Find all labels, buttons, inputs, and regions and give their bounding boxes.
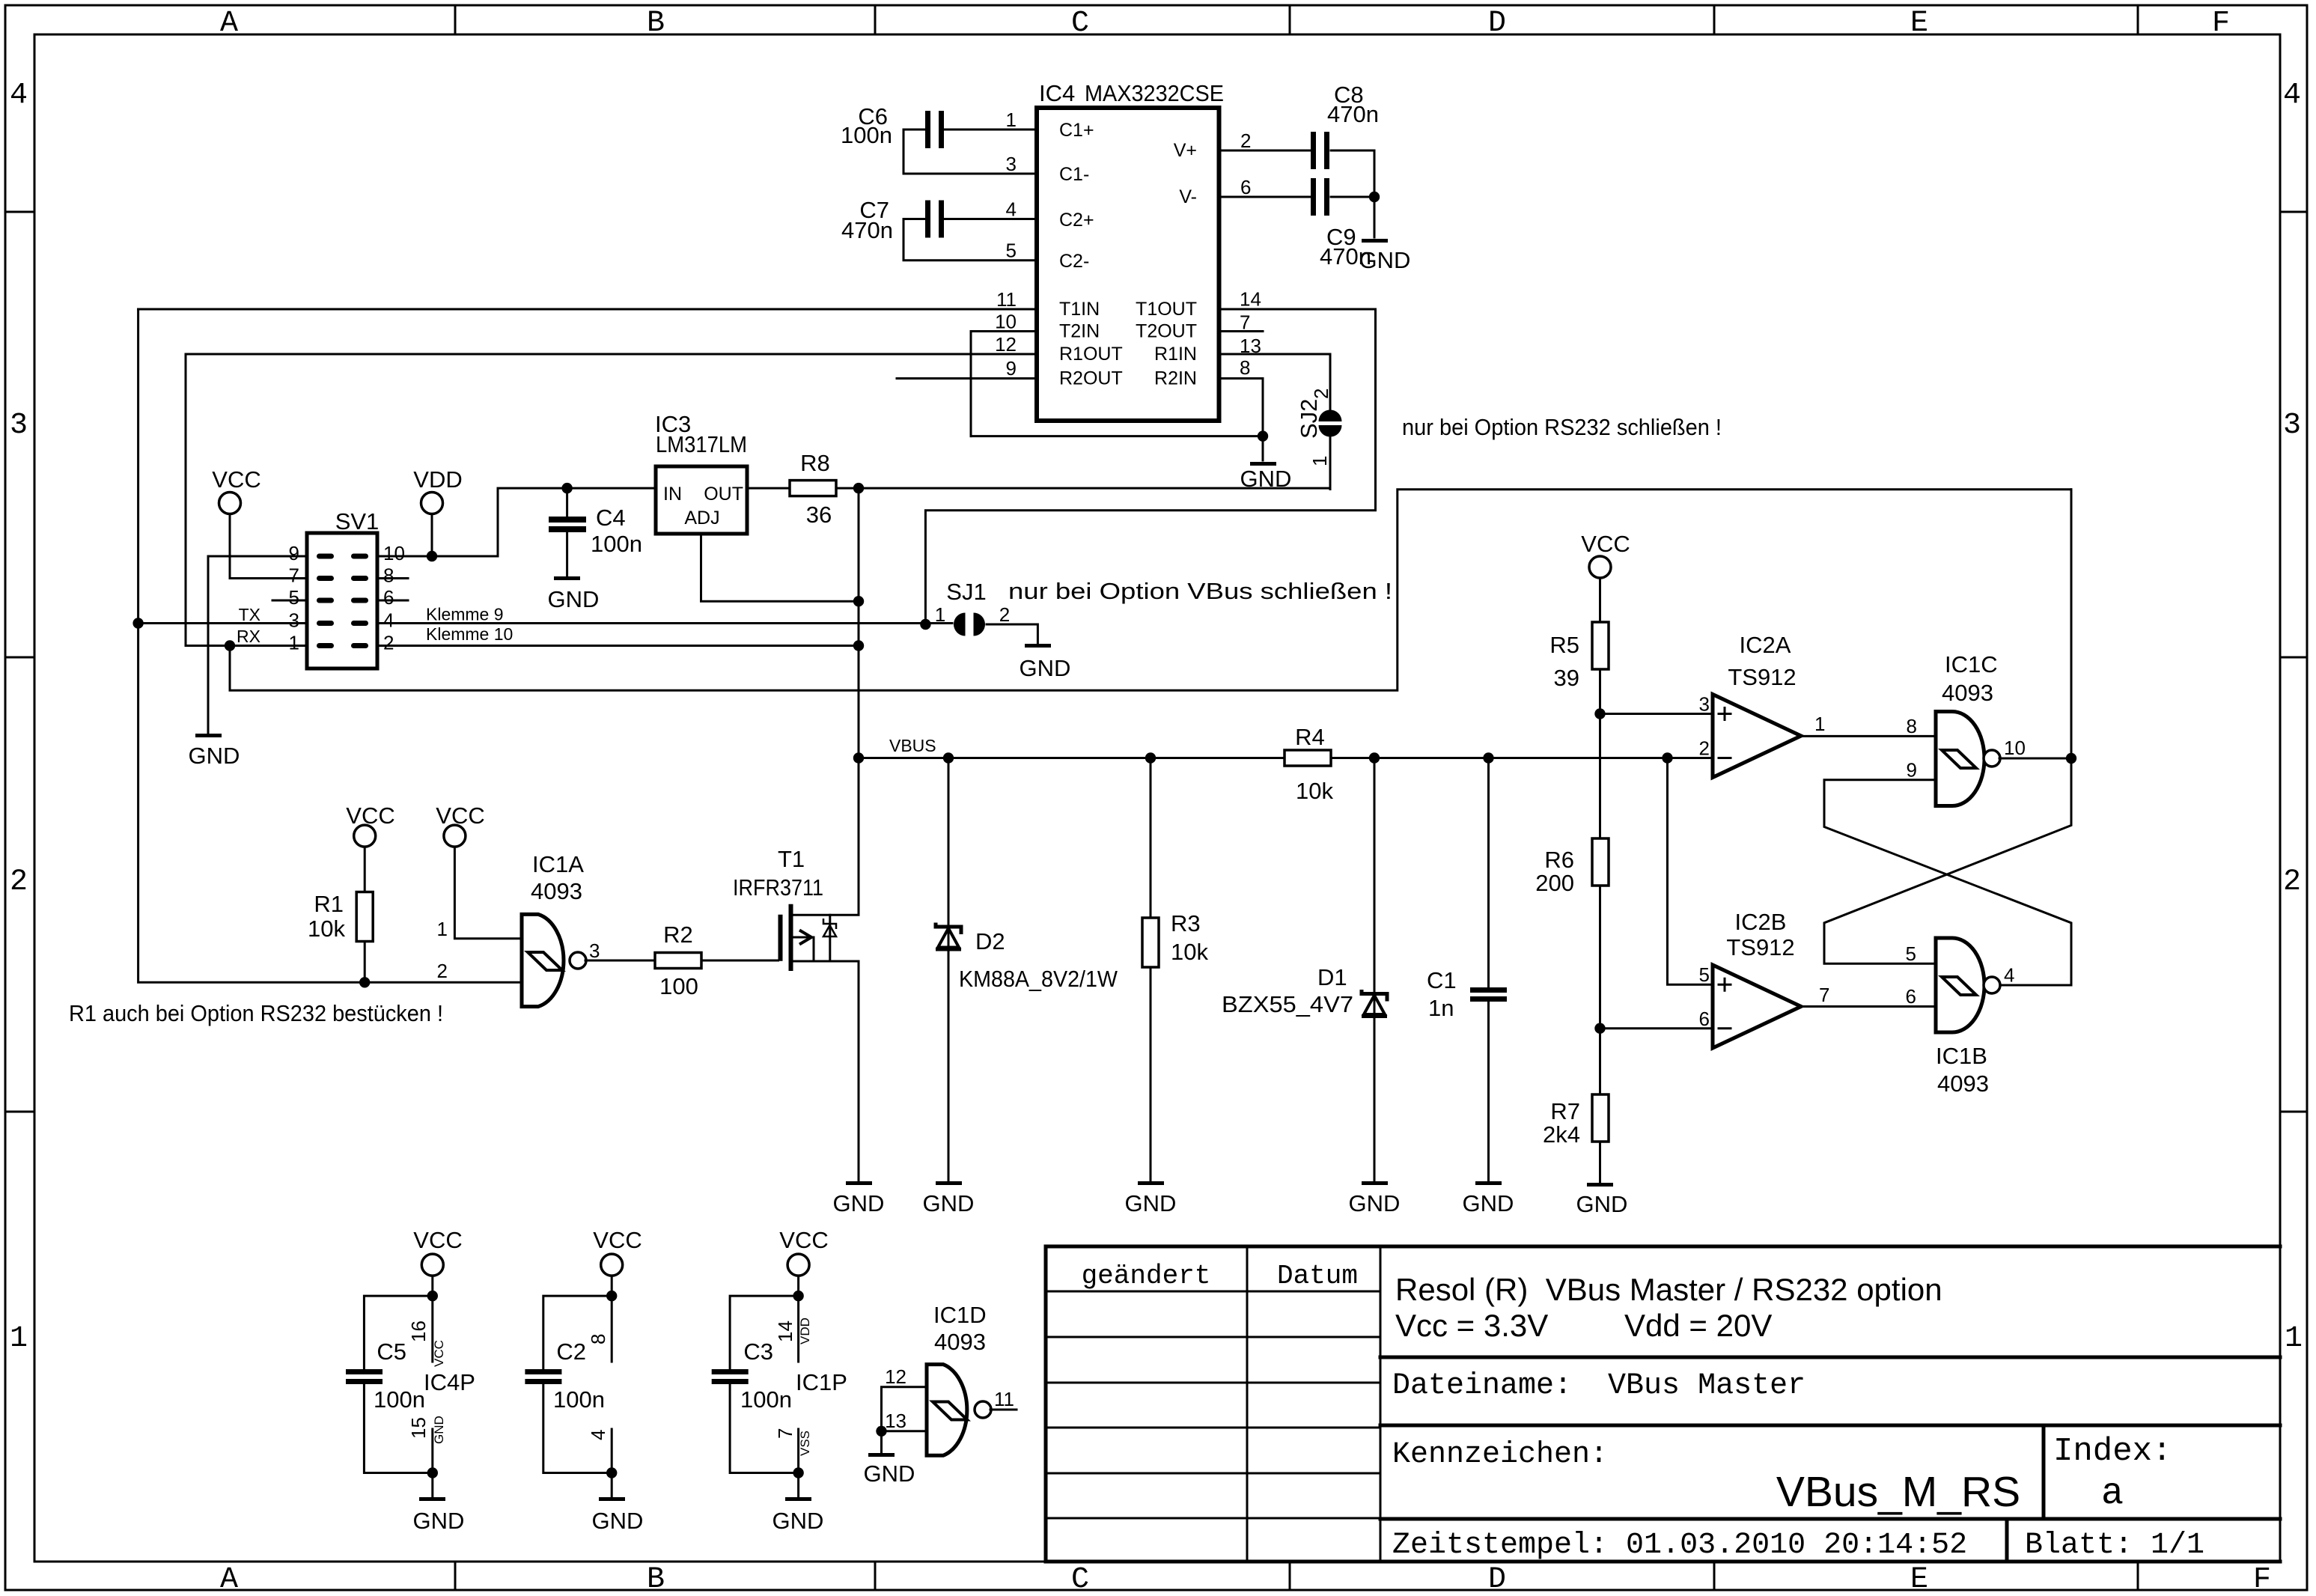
channel bar bbox=[789, 904, 793, 971]
junction R8/VBUS riser bbox=[853, 483, 864, 493]
wire R2 to T1 gate bbox=[701, 960, 778, 962]
ground GND (C1) bbox=[1463, 1181, 1514, 1216]
svg-text:IC2A: IC2A bbox=[1740, 632, 1791, 658]
svg-text:VBus_M_RS: VBus_M_RS bbox=[1776, 1468, 2020, 1516]
svg-text:39: 39 bbox=[1554, 665, 1579, 691]
svg-text:C2-: C2- bbox=[1059, 251, 1089, 272]
wire IC3 ADJ bbox=[701, 534, 859, 601]
svg-text:10k: 10k bbox=[1296, 778, 1333, 804]
junction R6/R7 (IC2B -) bbox=[1594, 1023, 1605, 1034]
svg-text:4093: 4093 bbox=[934, 1329, 986, 1355]
svg-text:1: 1 bbox=[1814, 713, 1825, 735]
junction R5/R6 (IC2A +) bbox=[1594, 708, 1605, 719]
svg-text:Klemme 10: Klemme 10 bbox=[426, 624, 513, 644]
svg-text:2: 2 bbox=[1699, 737, 1710, 760]
wire VBUS to IC2B + input bbox=[1668, 758, 1713, 985]
wire IC1C out to IC1B pin 5 (cross) bbox=[1824, 758, 2071, 963]
svg-text:GND: GND bbox=[1359, 247, 1411, 273]
wire SV1 pin8 stub bbox=[377, 577, 408, 579]
power VCC (C2) bbox=[593, 1227, 642, 1296]
svg-text:100n: 100n bbox=[740, 1386, 792, 1413]
svg-text:VCC: VCC bbox=[432, 1340, 446, 1367]
wire IC2A output to IC1C pin 8 bbox=[1801, 735, 1936, 737]
svg-text:R1OUT: R1OUT bbox=[1059, 344, 1123, 365]
svg-text:GND: GND bbox=[592, 1508, 644, 1534]
svg-text:V-: V- bbox=[1179, 186, 1197, 207]
svg-text:D1: D1 bbox=[1317, 964, 1347, 990]
wire R2IN (pin 8) to ground bbox=[971, 379, 1263, 461]
svg-text:VDD: VDD bbox=[413, 466, 462, 493]
junction ADJ bbox=[853, 596, 864, 606]
svg-text:Vdd = 20V: Vdd = 20V bbox=[1624, 1308, 1772, 1343]
op-amp IC2B TS912 bbox=[1699, 909, 1830, 1048]
ground GND (C4) bbox=[548, 576, 600, 612]
svg-text:R3: R3 bbox=[1171, 910, 1201, 936]
resistor R7 bbox=[1543, 1094, 1609, 1183]
svg-text:R2: R2 bbox=[663, 922, 693, 948]
svg-text:T2IN: T2IN bbox=[1059, 321, 1100, 342]
power VCC (R1) bbox=[346, 802, 394, 892]
capacitor C8 bbox=[1219, 82, 1379, 169]
svg-text:7: 7 bbox=[1819, 984, 1829, 1006]
svg-text:4: 4 bbox=[587, 1430, 609, 1440]
svg-text:SV1: SV1 bbox=[335, 508, 380, 534]
svg-text:R8: R8 bbox=[800, 450, 830, 476]
wire SV1 pin9 to ground bbox=[208, 556, 307, 734]
svg-text:4: 4 bbox=[10, 79, 28, 112]
svg-text:GND: GND bbox=[1349, 1190, 1401, 1216]
svg-text:LM317LM: LM317LM bbox=[656, 431, 747, 457]
junction RX bbox=[225, 640, 235, 651]
svg-text:2: 2 bbox=[1240, 130, 1251, 152]
svg-text:IC2B: IC2B bbox=[1735, 909, 1787, 935]
wire to IC2A + input bbox=[1600, 713, 1713, 715]
svg-text:10: 10 bbox=[995, 311, 1017, 333]
svg-text:F: F bbox=[2212, 7, 2230, 40]
ground GND (R2IN) bbox=[1240, 462, 1292, 492]
svg-text:nur bei Option RS232 schließen: nur bei Option RS232 schließen ! bbox=[1402, 414, 1722, 440]
wire SV1 pin5 stub bbox=[272, 600, 307, 602]
svg-text:2k4: 2k4 bbox=[1543, 1121, 1580, 1148]
capacitor C6 bbox=[841, 103, 1037, 174]
svg-text:100n: 100n bbox=[374, 1386, 425, 1413]
svg-text:GND: GND bbox=[1576, 1191, 1628, 1217]
ground GND (D1) bbox=[1349, 1181, 1401, 1216]
wire T2OUT stub (pin 7) bbox=[1219, 330, 1264, 332]
svg-text:R6: R6 bbox=[1544, 847, 1574, 873]
svg-text:1: 1 bbox=[289, 632, 299, 654]
svg-text:3: 3 bbox=[589, 939, 600, 962]
junction C4 bbox=[561, 483, 572, 493]
svg-text:8: 8 bbox=[1907, 715, 1917, 737]
ground GND (R3) bbox=[1125, 1181, 1177, 1216]
wire T1IN bus to IC1A pin 2 bbox=[138, 309, 522, 982]
power VCC (IC1A pin1) bbox=[436, 802, 522, 939]
resistor R2 bbox=[655, 922, 701, 999]
svg-text:6: 6 bbox=[1699, 1008, 1710, 1030]
gate wire bbox=[701, 960, 778, 962]
svg-text:RX: RX bbox=[237, 627, 260, 646]
svg-text:T1IN: T1IN bbox=[1059, 299, 1100, 320]
svg-text:6: 6 bbox=[1240, 176, 1251, 198]
junction VDD/SV1 pin10 bbox=[427, 551, 437, 561]
svg-text:IC4P: IC4P bbox=[424, 1369, 475, 1395]
solder jumper SJ2 bbox=[1296, 389, 1342, 490]
svg-text:4093: 4093 bbox=[531, 878, 582, 904]
svg-text:C: C bbox=[1071, 7, 1089, 40]
svg-text:A: A bbox=[220, 1563, 238, 1596]
svg-text:GND: GND bbox=[1020, 655, 1071, 681]
voltage regulator IC3 LM317LM bbox=[655, 411, 747, 534]
body diode bbox=[829, 915, 831, 961]
svg-text:GND: GND bbox=[772, 1508, 824, 1534]
svg-text:6: 6 bbox=[383, 586, 394, 609]
svg-text:MAX3232CSE: MAX3232CSE bbox=[1085, 80, 1224, 106]
svg-text:8: 8 bbox=[1240, 356, 1250, 379]
wire IC2B output to IC1B pin 6 bbox=[1801, 1005, 1936, 1008]
wire TX / Klemme 9 bbox=[138, 622, 952, 624]
svg-text:R5: R5 bbox=[1549, 632, 1579, 658]
power VCC (R5) bbox=[1581, 531, 1630, 622]
svg-text:6: 6 bbox=[1906, 985, 1916, 1008]
wire IC3 OUT to R8 bbox=[747, 487, 790, 490]
junction Klemme10/VBUS riser bbox=[853, 640, 864, 651]
transistor T1 IRFR3711 bbox=[701, 758, 859, 1182]
svg-text:D: D bbox=[1488, 7, 1506, 40]
diode D1 BZX55_4V7 bbox=[1222, 758, 1387, 1182]
connector SV1 bbox=[237, 508, 513, 668]
svg-text:VSS: VSS bbox=[798, 1431, 812, 1456]
junction C8/C9 bbox=[1369, 192, 1380, 202]
svg-text:4: 4 bbox=[2283, 79, 2301, 112]
svg-text:F: F bbox=[2253, 1563, 2271, 1596]
svg-text:A: A bbox=[220, 7, 238, 40]
svg-text:4: 4 bbox=[2004, 964, 2014, 987]
svg-text:8: 8 bbox=[587, 1334, 609, 1344]
svg-text:GND: GND bbox=[548, 586, 600, 612]
svg-text:Dateiname: VBus Master: Dateiname: VBus Master bbox=[1392, 1369, 1805, 1403]
gate bar bbox=[778, 915, 783, 961]
wire T2IN (pin 10) bbox=[971, 332, 1037, 436]
ground GND (R7) bbox=[1576, 1183, 1628, 1217]
svg-text:9: 9 bbox=[1907, 759, 1917, 782]
svg-text:1: 1 bbox=[1308, 456, 1331, 466]
power VCC (IC4P) bbox=[413, 1227, 462, 1296]
substrate arrow bbox=[793, 937, 814, 961]
svg-text:T2OUT: T2OUT bbox=[1136, 321, 1197, 342]
NAND gate IC1D 4093 bbox=[876, 1302, 1017, 1455]
svg-text:3: 3 bbox=[1699, 693, 1710, 716]
svg-text:GND: GND bbox=[1125, 1190, 1177, 1216]
svg-text:C5: C5 bbox=[377, 1338, 406, 1365]
wire R1OUT (pin 12) bbox=[186, 353, 1037, 356]
svg-text:12: 12 bbox=[885, 1365, 906, 1388]
svg-text:Zeitstempel: 01.03.2010 20:14:: Zeitstempel: 01.03.2010 20:14:52 bbox=[1392, 1529, 1967, 1562]
svg-text:R1IN: R1IN bbox=[1154, 344, 1197, 365]
ground GND (T1) bbox=[833, 1181, 885, 1216]
svg-text:Resol (R) VBus Master / RS232: Resol (R) VBus Master / RS232 option bbox=[1395, 1272, 1942, 1307]
resistor R6 bbox=[1535, 838, 1609, 1094]
svg-text:C2+: C2+ bbox=[1059, 210, 1094, 231]
svg-text:IN: IN bbox=[663, 484, 682, 505]
svg-text:11: 11 bbox=[996, 288, 1017, 311]
resistor R3 bbox=[1142, 758, 1208, 1182]
wire IC1A output to R2 bbox=[585, 960, 655, 962]
svg-text:470n: 470n bbox=[1327, 101, 1379, 127]
svg-text:GND: GND bbox=[923, 1190, 975, 1216]
svg-text:GND: GND bbox=[432, 1416, 446, 1444]
svg-text:B: B bbox=[647, 7, 665, 40]
source wire bbox=[793, 961, 859, 1181]
op-amp IC4 MAX3232CSE box bbox=[1037, 80, 1224, 421]
svg-text:C1-: C1- bbox=[1059, 164, 1089, 185]
svg-text:T1OUT: T1OUT bbox=[1136, 299, 1197, 320]
svg-text:GND: GND bbox=[189, 743, 240, 769]
svg-text:VCC: VCC bbox=[779, 1227, 828, 1253]
svg-text:100n: 100n bbox=[841, 122, 892, 148]
solder jumper SJ1 bbox=[935, 579, 1038, 644]
svg-text:VBUS: VBUS bbox=[889, 736, 936, 755]
capacitor C1 bbox=[1427, 758, 1507, 1182]
wire R1IN (pin 13) to SJ2 bbox=[1219, 354, 1331, 410]
svg-text:BZX55_4V7: BZX55_4V7 bbox=[1222, 991, 1353, 1017]
svg-text:T1: T1 bbox=[778, 846, 805, 872]
capacitor C5 / power symbol IC4P bbox=[346, 1291, 475, 1497]
svg-text:9: 9 bbox=[1006, 357, 1017, 380]
op-amp IC2A TS912 bbox=[1699, 632, 1826, 778]
svg-text:R2IN: R2IN bbox=[1154, 368, 1197, 389]
svg-text:9: 9 bbox=[289, 542, 299, 564]
svg-text:C1: C1 bbox=[1427, 967, 1457, 993]
svg-text:TX: TX bbox=[239, 605, 260, 624]
capacitor C9 bbox=[1219, 178, 1375, 269]
svg-text:R7: R7 bbox=[1550, 1098, 1580, 1124]
svg-text:E: E bbox=[1910, 7, 1928, 40]
svg-text:ADJ: ADJ bbox=[684, 508, 719, 529]
capacitor C7 bbox=[841, 197, 1037, 261]
NAND gate IC1C 4093 bbox=[1907, 651, 2026, 806]
svg-text:2: 2 bbox=[383, 632, 394, 654]
svg-text:10: 10 bbox=[2004, 737, 2026, 759]
power VCC (SV1) bbox=[212, 466, 307, 579]
svg-text:GND: GND bbox=[864, 1461, 915, 1487]
svg-text:GND: GND bbox=[833, 1190, 885, 1216]
svg-text:C1+: C1+ bbox=[1059, 120, 1094, 141]
svg-text:1: 1 bbox=[10, 1322, 28, 1356]
wire T1OUT (pin 14) bbox=[925, 309, 1375, 624]
ground GND (IC1P) bbox=[772, 1497, 824, 1534]
svg-text:7: 7 bbox=[774, 1428, 796, 1439]
ground GND (D2) bbox=[923, 1181, 975, 1216]
svg-text:5: 5 bbox=[289, 586, 299, 609]
NAND gate IC1A 4093 bbox=[437, 851, 600, 1007]
svg-text:3: 3 bbox=[289, 609, 299, 632]
svg-text:VCC: VCC bbox=[212, 466, 260, 493]
svg-text:IC1C: IC1C bbox=[1945, 651, 1998, 677]
svg-text:E: E bbox=[1910, 1563, 1928, 1596]
svg-text:2: 2 bbox=[2283, 865, 2301, 899]
svg-text:Klemme 9: Klemme 9 bbox=[426, 605, 504, 624]
svg-text:2: 2 bbox=[999, 603, 1010, 626]
svg-text:C4: C4 bbox=[596, 505, 626, 531]
svg-text:12: 12 bbox=[995, 333, 1017, 356]
svg-text:IC1P: IC1P bbox=[796, 1369, 847, 1395]
svg-text:200: 200 bbox=[1535, 870, 1574, 896]
svg-text:1: 1 bbox=[935, 603, 945, 626]
capacitor C2 bbox=[525, 1291, 617, 1497]
svg-text:B: B bbox=[647, 1563, 665, 1596]
svg-text:15: 15 bbox=[407, 1417, 430, 1439]
ground GND (C8/C9) bbox=[1359, 239, 1411, 273]
svg-text:470n: 470n bbox=[841, 217, 893, 243]
wire R8 output to SJ2 pin1 bbox=[836, 440, 1330, 488]
svg-text:R2OUT: R2OUT bbox=[1059, 368, 1123, 389]
svg-text:VCC: VCC bbox=[413, 1227, 462, 1253]
wire IC1B out to IC1C pin 9 (cross) bbox=[1824, 780, 2071, 985]
svg-text:3: 3 bbox=[1006, 153, 1017, 175]
svg-text:nur bei Option VBus schließen: nur bei Option VBus schließen ! bbox=[1008, 578, 1392, 604]
wire IC1C output node bbox=[1999, 490, 2071, 758]
svg-text:1: 1 bbox=[2285, 1322, 2303, 1356]
ground GND (SV1 pin9) bbox=[189, 734, 240, 769]
svg-text:a: a bbox=[2101, 1472, 2124, 1515]
svg-text:VDD: VDD bbox=[798, 1318, 812, 1344]
svg-text:100: 100 bbox=[659, 973, 698, 999]
svg-text:11: 11 bbox=[994, 1388, 1014, 1410]
svg-text:VCC: VCC bbox=[436, 802, 484, 829]
svg-text:100n: 100n bbox=[591, 531, 642, 557]
svg-text:VCC: VCC bbox=[1581, 531, 1630, 557]
svg-text:OUT: OUT bbox=[704, 484, 743, 505]
svg-text:5: 5 bbox=[1906, 942, 1916, 965]
wire C8/C9 to ground bbox=[1374, 150, 1376, 237]
svg-text:D: D bbox=[1488, 1563, 1506, 1596]
wire RX to SJ2 net bbox=[230, 490, 2071, 691]
svg-text:16: 16 bbox=[407, 1321, 430, 1342]
svg-text:GND: GND bbox=[1463, 1190, 1514, 1216]
junction TX/bus bbox=[132, 618, 143, 628]
svg-text:C3: C3 bbox=[743, 1338, 773, 1365]
junction Klemme9/T1OUT riser bbox=[920, 619, 930, 630]
ground GND (IC1D) bbox=[864, 1453, 915, 1487]
svg-text:36: 36 bbox=[806, 502, 832, 528]
svg-text:SJ1: SJ1 bbox=[946, 579, 986, 605]
svg-text:IC1B: IC1B bbox=[1936, 1043, 1987, 1069]
svg-text:1n: 1n bbox=[1428, 995, 1454, 1021]
svg-text:3: 3 bbox=[2283, 409, 2301, 442]
drain wire bbox=[793, 758, 859, 916]
resistor R1 bbox=[308, 891, 373, 982]
power VDD bbox=[413, 466, 462, 556]
svg-text:10: 10 bbox=[383, 542, 405, 564]
resistor R4 bbox=[1285, 724, 1333, 804]
svg-text:10k: 10k bbox=[1171, 939, 1208, 965]
svg-text:5: 5 bbox=[1006, 240, 1017, 262]
svg-text:D2: D2 bbox=[975, 928, 1005, 954]
ground GND (SJ1) bbox=[1020, 644, 1071, 681]
svg-text:1: 1 bbox=[1006, 109, 1017, 131]
power VCC (IC1P) bbox=[779, 1227, 828, 1296]
svg-text:14: 14 bbox=[1240, 288, 1261, 311]
svg-text:8: 8 bbox=[383, 564, 394, 587]
wire VDD to IC3 IN bbox=[377, 488, 656, 556]
junction pin8/GND bbox=[1258, 430, 1268, 441]
svg-text:4093: 4093 bbox=[1937, 1070, 1989, 1097]
svg-text:1: 1 bbox=[437, 918, 448, 940]
svg-text:13: 13 bbox=[885, 1410, 906, 1432]
ground GND (IC4P) bbox=[413, 1497, 465, 1534]
wire VBUS riser bbox=[858, 488, 860, 758]
svg-text:KM88A_8V2/1W: KM88A_8V2/1W bbox=[959, 966, 1118, 992]
svg-text:3: 3 bbox=[10, 409, 28, 442]
svg-text:Datum: Datum bbox=[1277, 1261, 1358, 1291]
svg-text:R1 auch bei Option RS232 bestü: R1 auch bei Option RS232 bestücken ! bbox=[69, 1000, 443, 1026]
svg-text:geändert: geändert bbox=[1082, 1261, 1211, 1291]
wire SV1 pin6 stub bbox=[377, 600, 408, 602]
wire to IC2B - input bbox=[1600, 1027, 1713, 1029]
junction IC1C output bbox=[2066, 753, 2076, 764]
svg-text:Kennzeichen:: Kennzeichen: bbox=[1392, 1438, 1608, 1472]
capacitor C4 bbox=[549, 488, 642, 576]
svg-text:4: 4 bbox=[1006, 198, 1017, 221]
wire Klemme 10 bbox=[377, 645, 859, 647]
svg-text:Blatt: 1/1: Blatt: 1/1 bbox=[2025, 1529, 2204, 1562]
junction R1/IC1A pin2 bbox=[359, 977, 370, 987]
wire RX left bbox=[186, 354, 307, 646]
svg-text:10k: 10k bbox=[308, 916, 345, 942]
diode D2 KM88A_8V2/1W bbox=[936, 758, 1118, 1182]
ground GND (C2) bbox=[592, 1497, 644, 1534]
resistor R5 bbox=[1549, 622, 1609, 838]
title block bbox=[1046, 1246, 2280, 1562]
svg-text:V+: V+ bbox=[1174, 140, 1197, 161]
svg-text:5: 5 bbox=[1699, 963, 1710, 986]
svg-text:4: 4 bbox=[383, 609, 394, 632]
pin 12/13 wires bbox=[882, 1387, 1017, 1453]
svg-text:SJ2: SJ2 bbox=[1296, 399, 1322, 439]
svg-text:100n: 100n bbox=[553, 1386, 605, 1413]
svg-text:C2: C2 bbox=[556, 1338, 586, 1365]
svg-text:14: 14 bbox=[774, 1321, 796, 1342]
svg-text:2: 2 bbox=[1310, 389, 1332, 399]
wire R2OUT stub (pin 9) bbox=[897, 377, 1037, 380]
svg-text:TS912: TS912 bbox=[1726, 934, 1794, 960]
svg-text:C: C bbox=[1071, 1563, 1089, 1596]
svg-text:IC1A: IC1A bbox=[532, 851, 584, 877]
svg-text:4093: 4093 bbox=[1942, 680, 1993, 706]
capacitor C3 / power symbol IC1P bbox=[712, 1291, 847, 1497]
resistor R8 bbox=[790, 450, 836, 528]
svg-text:R4: R4 bbox=[1295, 724, 1325, 750]
svg-text:IC4: IC4 bbox=[1039, 80, 1075, 106]
svg-text:R1: R1 bbox=[314, 891, 344, 917]
svg-text:IRFR3711: IRFR3711 bbox=[733, 874, 823, 901]
svg-text:Vcc = 3.3V: Vcc = 3.3V bbox=[1395, 1308, 1548, 1343]
NAND gate IC1B 4093 bbox=[1906, 938, 2015, 1097]
svg-text:TS912: TS912 bbox=[1728, 664, 1796, 690]
svg-text:Index:: Index: bbox=[2053, 1433, 2172, 1470]
svg-text:2: 2 bbox=[10, 865, 28, 899]
svg-text:GND: GND bbox=[413, 1508, 465, 1534]
svg-text:IC1D: IC1D bbox=[933, 1302, 987, 1328]
svg-text:2: 2 bbox=[437, 960, 448, 982]
svg-text:VCC: VCC bbox=[346, 802, 394, 829]
wire T1IN (pin 11) bbox=[138, 308, 1037, 311]
svg-text:7: 7 bbox=[289, 564, 299, 587]
node VBUS bbox=[853, 736, 1713, 764]
svg-text:VCC: VCC bbox=[593, 1227, 642, 1253]
